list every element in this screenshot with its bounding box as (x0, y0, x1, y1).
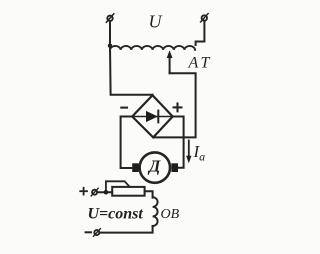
wire left terminal to coil (109, 21, 111, 46)
rheostat Rv body (112, 187, 144, 196)
wire plus terminal to rheostat (97, 191, 112, 193)
terminal left supply (106, 14, 114, 22)
wire field winding to minus terminal (99, 226, 152, 233)
autotransformer wiper arrow (167, 50, 173, 73)
wire right terminal to coil (196, 21, 205, 45)
rectifier bridge VD diamond (132, 95, 173, 137)
svg-text:U=const: U=const (88, 206, 144, 223)
svg-text:АТ: АТ (188, 55, 213, 72)
wire bridge minus output to left brush (121, 117, 133, 169)
svg-text:ОВ: ОВ (161, 207, 180, 222)
terminal field minus (93, 229, 100, 237)
diode inside bridge (135, 111, 171, 123)
plus sign field supply (80, 188, 87, 195)
wire bridge plus output to right brush (173, 117, 184, 168)
label plus polarity (174, 104, 182, 112)
label minus polarity (121, 107, 127, 109)
autotransformer AT winding (110, 46, 195, 50)
minus sign field supply (86, 231, 91, 233)
brush left (132, 163, 138, 172)
node junction left coil end (108, 44, 112, 48)
field winding OV coil (153, 197, 158, 226)
wire rheostat to field winding (145, 191, 153, 197)
rheostat tap wire (106, 181, 130, 192)
current arrow Ia (186, 141, 191, 164)
terminal right supply (201, 14, 209, 23)
svg-text:U: U (149, 12, 163, 32)
brush right (171, 163, 178, 172)
node junction rheostat tap (104, 190, 109, 195)
svg-text:Ia: Ia (193, 142, 206, 164)
terminal field plus (91, 188, 98, 196)
wire wiper to bridge AC input (bottom corner) (154, 73, 196, 138)
svg-text:Д: Д (147, 157, 161, 176)
wire left supply line to bridge AC input (top corner) (110, 46, 153, 95)
motor armature D (140, 152, 170, 182)
